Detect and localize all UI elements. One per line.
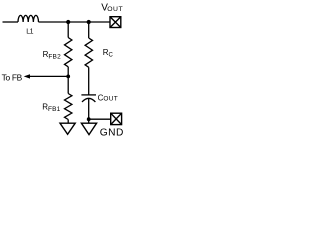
wire stub to ground left — [67, 120, 69, 124]
terminal VOUT box — [110, 17, 121, 28]
capacitor COUT curved plate — [82, 98, 95, 102]
wire to GND terminal — [89, 118, 111, 120]
wire left branch upper — [67, 22, 69, 38]
ground left — [60, 123, 75, 134]
wire input left — [3, 21, 19, 23]
svg-text:COUT: COUT — [98, 93, 118, 102]
svg-text:GND: GND — [100, 128, 124, 139]
capacitor COUT top plate — [81, 94, 96, 96]
node To FB junction dot — [66, 75, 70, 79]
wire right branch upper — [88, 22, 90, 38]
node junction dot right — [87, 20, 91, 24]
arrowhead to FB — [24, 74, 30, 78]
wire top — [38, 21, 110, 23]
wire stub to ground right — [88, 119, 90, 123]
inductor L1 — [18, 15, 38, 22]
wire left branch middle — [67, 67, 69, 94]
resistor RFB1 — [65, 94, 72, 120]
wire to FB — [29, 75, 68, 77]
resistor RFB2 — [65, 38, 72, 67]
svg-text:L1: L1 — [26, 29, 33, 36]
wire capacitor to node — [88, 99, 90, 120]
terminal GND box — [111, 113, 122, 124]
resistor RC — [85, 38, 92, 67]
svg-text:To FB: To FB — [2, 73, 23, 83]
node junction dot left — [66, 20, 70, 24]
wire right branch middle — [88, 67, 90, 95]
node junction dot bottom — [87, 117, 91, 121]
ground right — [81, 123, 96, 134]
